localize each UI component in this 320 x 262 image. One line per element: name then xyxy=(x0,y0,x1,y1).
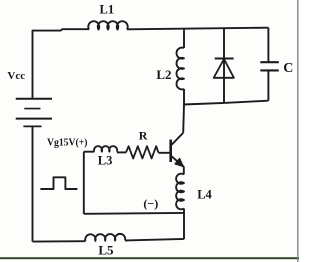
svg-text:L5: L5 xyxy=(98,242,114,257)
svg-text:Vcc: Vcc xyxy=(7,70,25,82)
svg-text:C: C xyxy=(283,61,293,76)
scan artifact: bottom dark band xyxy=(0,257,299,259)
wire: gate drive vertical xyxy=(83,152,85,214)
capacitor C top lead xyxy=(267,28,269,63)
inductor L4 xyxy=(176,174,184,210)
svg-text:L2: L2 xyxy=(156,67,171,82)
capacitor C bottom lead xyxy=(267,70,269,100)
inductor L5 xyxy=(85,234,125,241)
transistor Q1 collector diagonal xyxy=(171,133,183,146)
wire: collector vertical xyxy=(182,105,185,133)
wire: left vertical (battery bottom lead to bottom rail) xyxy=(32,126,34,241)
battery Vcc plate 3 (long) xyxy=(16,118,52,120)
svg-text:L3: L3 xyxy=(98,154,113,168)
pulse waveform symbol xyxy=(40,177,77,189)
inductor L3 xyxy=(94,146,117,152)
svg-text:L4: L4 xyxy=(197,187,212,201)
wire: emitter vertical xyxy=(183,166,185,174)
diode cathode bar xyxy=(215,58,234,60)
wire: L3 to R xyxy=(117,151,126,153)
wire: gate lead to L3 xyxy=(84,151,95,153)
capacitor C bottom plate xyxy=(260,69,279,71)
wire: top rail left segment xyxy=(33,29,90,30)
inductor L2 xyxy=(177,48,184,90)
inductor L1 xyxy=(88,21,128,29)
wire: L2 branch top vertical xyxy=(183,29,185,48)
diode vertical wire xyxy=(223,28,225,103)
battery Vcc plate 1 (long) xyxy=(16,98,52,100)
wire: top rail right segment xyxy=(127,28,268,30)
wire: L2 branch bottom vertical xyxy=(183,89,185,105)
scan artifact: right edge faint line xyxy=(297,0,298,262)
capacitor C top plate xyxy=(260,61,279,63)
battery Vcc plate 4 (short) xyxy=(23,125,41,127)
transistor Q1 emitter arrow xyxy=(175,158,183,166)
resistor R xyxy=(126,146,158,158)
transistor Q1 base bar xyxy=(169,140,172,162)
wire: gate return line xyxy=(84,212,184,215)
svg-text:R: R xyxy=(139,129,148,143)
svg-text:(−): (−) xyxy=(143,196,158,210)
diode triangle xyxy=(214,59,234,78)
wire: R to base xyxy=(158,152,169,154)
wire: bottom rail left segment xyxy=(33,240,86,242)
battery Vcc plate 2 (short) xyxy=(24,108,40,110)
svg-text:L1: L1 xyxy=(100,2,115,16)
wire: L4 bottom vertical to bottom rail xyxy=(183,209,185,240)
wire: bottom rail right segment xyxy=(125,239,184,241)
transistor Q1 emitter diagonal xyxy=(171,156,184,167)
wire: left vertical (battery top lead) xyxy=(32,30,34,99)
wire: tank bottom rail xyxy=(183,101,268,105)
svg-text:Vg15V(+): Vg15V(+) xyxy=(47,137,88,148)
